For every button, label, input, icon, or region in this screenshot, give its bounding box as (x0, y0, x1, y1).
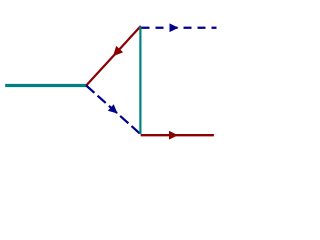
arrowhead on bottom red line (169, 131, 178, 140)
wire: teal vertical line (139, 26, 141, 134)
wire: blue dashed diagonal (vertex to bottom junction) (86, 86, 140, 135)
wire: incoming teal fermion line (5, 84, 86, 87)
wire: top blue dashed horizontal (142, 27, 217, 29)
wire: bottom red horizontal (141, 134, 214, 136)
arrowhead on red diagonal (points toward vertex) (113, 46, 123, 57)
Feynman diagram (0, 0, 218, 164)
wire: red diagonal (vertex to top junction) (86, 26, 141, 86)
arrowhead on top blue line (170, 23, 179, 32)
arrowhead on blue diagonal (108, 104, 118, 113)
